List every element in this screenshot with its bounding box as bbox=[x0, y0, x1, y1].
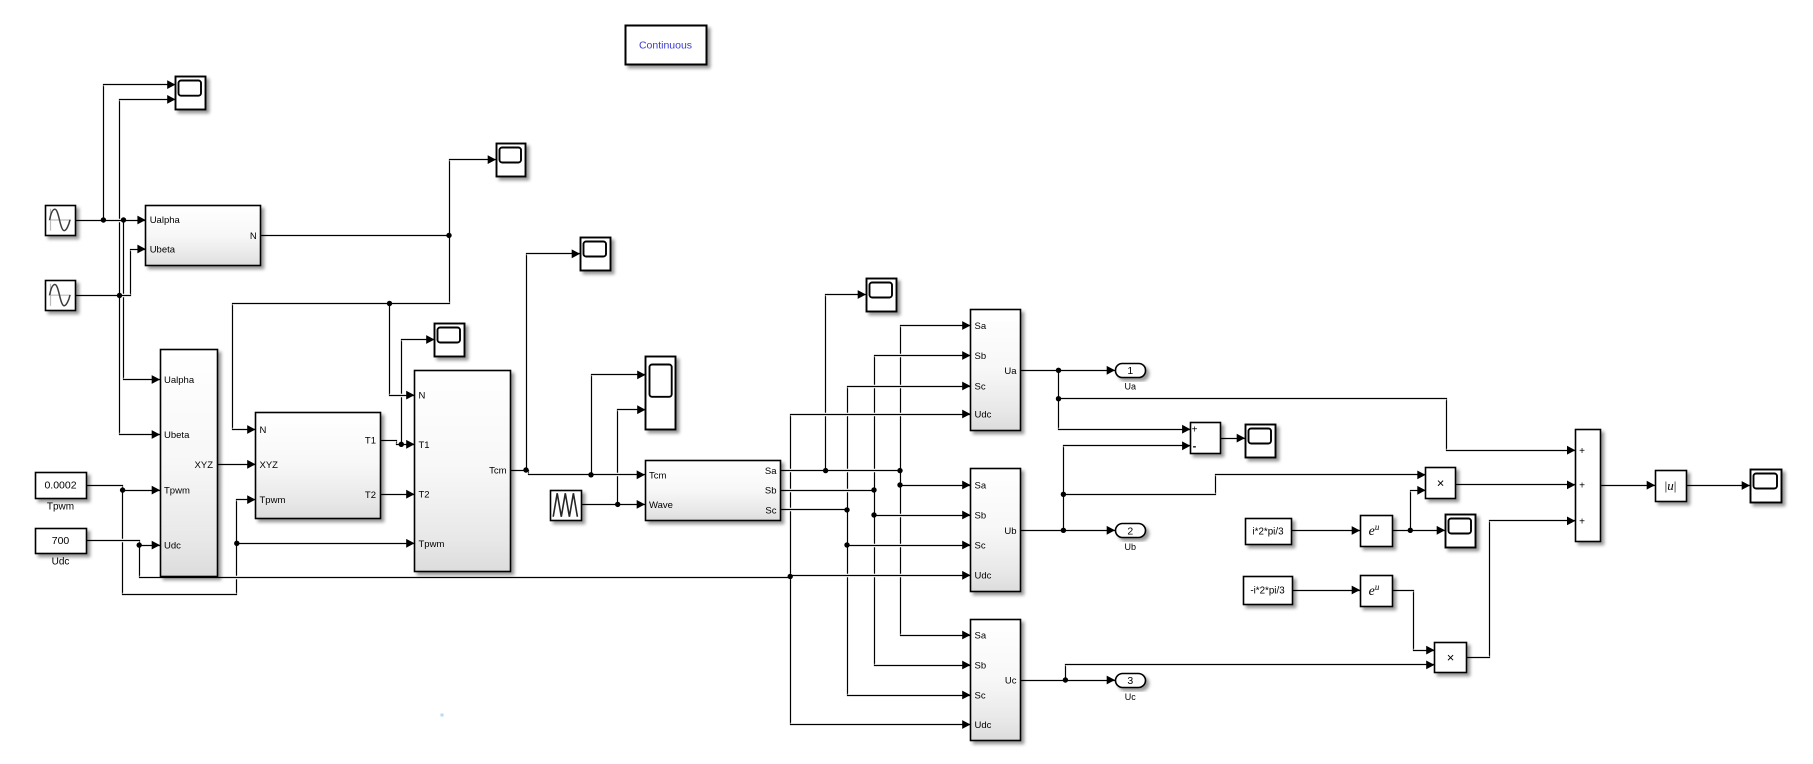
scope Scope8 (exp1) bbox=[1446, 515, 1476, 548]
svg-text:-i*2*pi/3: -i*2*pi/3 bbox=[1250, 586, 1285, 597]
svg-text:-: - bbox=[1193, 440, 1197, 452]
sum block (+/-) bbox=[1191, 423, 1221, 454]
wire Tpwm to Tcm-calc Tpwm bbox=[237, 543, 415, 545]
math function block Exp1 (e^u) bbox=[1361, 516, 1393, 547]
svg-text:Sa: Sa bbox=[975, 321, 987, 332]
svg-text:+: + bbox=[1579, 480, 1585, 491]
wire Sum to Scope7 bbox=[1221, 438, 1246, 440]
svg-text:|u|: |u| bbox=[1665, 478, 1677, 493]
wire Sine1 to N-calc Ualpha bbox=[76, 220, 146, 222]
svg-text:0.0002: 0.0002 bbox=[44, 480, 76, 492]
constant Tpwm (0.0002) bbox=[36, 473, 87, 513]
subsystem Tcm-calc bbox=[415, 371, 511, 572]
svg-text:N: N bbox=[250, 231, 257, 242]
scope Scope7 (Sum) bbox=[1246, 425, 1276, 458]
wire Product1 to Add in2 bbox=[1456, 484, 1576, 486]
svg-text:Continuous: Continuous bbox=[639, 40, 692, 52]
outport Out1 Ua (1) bbox=[1116, 364, 1146, 392]
wire Udc const to XYZ-calc Udc bbox=[87, 541, 161, 546]
constant phase +120 (i*2*pi/3) bbox=[1246, 519, 1292, 545]
wire exp2 to Product2 in1 bbox=[1393, 591, 1435, 651]
wire Ub branch to Product1 in1 bbox=[1064, 475, 1426, 495]
product block Product1 (x) bbox=[1426, 468, 1456, 499]
svg-text:Tpwm: Tpwm bbox=[419, 539, 445, 550]
svg-text:Ualpha: Ualpha bbox=[164, 375, 195, 386]
subsystem N-calc (sector) bbox=[146, 206, 261, 266]
scope Scope2 (N) bbox=[497, 144, 526, 177]
wire Triangle to PWM Wave bbox=[581, 504, 646, 506]
wire Udc trunk down to Uc block Udc bbox=[791, 578, 971, 725]
svg-text:Tcm: Tcm bbox=[489, 466, 507, 477]
constant phase -120 (-i*2*pi/3) bbox=[1244, 577, 1293, 605]
wire T2 to Tcm-calc T2 bbox=[381, 494, 415, 496]
svg-text:Uc: Uc bbox=[1125, 692, 1136, 702]
scope Scope5 (Tcm/Wave 2 inputs) bbox=[646, 357, 676, 430]
subsystem Ub bridge bbox=[971, 469, 1021, 592]
wire Ua branch to Add in1 bbox=[1059, 399, 1576, 451]
scope Scope4 (Tcm) bbox=[581, 238, 611, 271]
svg-text:Sa: Sa bbox=[975, 631, 987, 642]
svg-text:Udc: Udc bbox=[975, 410, 992, 421]
svg-text:Ubeta: Ubeta bbox=[150, 245, 176, 256]
svg-text:Sb: Sb bbox=[975, 661, 987, 672]
svg-text:Ua: Ua bbox=[1004, 366, 1017, 377]
scope Scope9 (|u|) bbox=[1751, 470, 1782, 503]
subsystem XYZ-calc bbox=[161, 350, 218, 577]
svg-text:Tcm: Tcm bbox=[649, 470, 667, 481]
svg-text:1: 1 bbox=[1127, 365, 1133, 377]
svg-text:Sa: Sa bbox=[975, 481, 987, 492]
svg-text:Udc: Udc bbox=[52, 557, 70, 568]
wire Ub to outport 2 bbox=[1021, 530, 1116, 532]
wire Sb source line bbox=[781, 490, 875, 492]
wire i2pi3 const to exp1 bbox=[1292, 530, 1361, 532]
wire branch to Scope4 bbox=[527, 254, 581, 471]
wire Uc to outport 3 bbox=[1021, 680, 1116, 682]
scope Scope1 (2 inputs) bbox=[176, 77, 206, 110]
wire branch to Scope3 bbox=[402, 340, 435, 445]
wire Sb branch to Ub bbox=[875, 515, 971, 517]
wire branch to XYZ-calc Ubeta bbox=[120, 296, 161, 435]
svg-text:Ua: Ua bbox=[1125, 382, 1137, 392]
svg-text:i*2*pi/3: i*2*pi/3 bbox=[1252, 527, 1284, 538]
wire branch to XYZ-calc Ualpha bbox=[124, 221, 161, 380]
wire Sa trunk bbox=[901, 326, 971, 636]
subsystem Ua bridge bbox=[971, 310, 1021, 431]
svg-text:T1: T1 bbox=[419, 440, 430, 451]
svg-text:Tpwm: Tpwm bbox=[260, 495, 286, 506]
wire exp1 branch to Product1 in2 bbox=[1411, 491, 1426, 531]
outport Out3 Uc (3) bbox=[1116, 674, 1146, 703]
svg-text:T1: T1 bbox=[365, 436, 376, 447]
wire Udc trunk up to Ua block Udc bbox=[791, 415, 971, 578]
abs block |u| bbox=[1656, 471, 1687, 502]
svg-text:T2: T2 bbox=[419, 490, 430, 501]
svg-text:+: + bbox=[1579, 446, 1585, 457]
wire Sc source line bbox=[781, 509, 848, 511]
constant Udc (700) bbox=[36, 529, 87, 568]
wire Sine2 to N-calc Ubeta bbox=[76, 250, 146, 296]
svg-text:+: + bbox=[1192, 425, 1198, 436]
svg-text:+: + bbox=[1579, 517, 1585, 528]
wire Ua to outport 1 bbox=[1021, 370, 1116, 372]
svg-text:Uc: Uc bbox=[1005, 676, 1017, 687]
scope Scope3 (T1) bbox=[435, 324, 465, 357]
svg-text:Ualpha: Ualpha bbox=[150, 215, 181, 226]
wire branch to Scope2 bbox=[450, 160, 497, 236]
wire branch to Tcm-calc N bbox=[390, 304, 415, 396]
svg-text:×: × bbox=[1447, 650, 1455, 665]
svg-text:XYZ: XYZ bbox=[260, 460, 279, 471]
wire Uc branch to Product2 in2 bbox=[1066, 665, 1435, 681]
outport Out2 Ub (2) bbox=[1116, 524, 1146, 553]
wire Abs to Scope9 bbox=[1687, 485, 1751, 487]
svg-text:×: × bbox=[1437, 476, 1445, 491]
svg-text:XYZ: XYZ bbox=[195, 460, 214, 471]
wire branch to Scope1 in2 bbox=[120, 100, 176, 296]
svg-text:2: 2 bbox=[1127, 525, 1133, 537]
subsystem Uc bridge bbox=[971, 620, 1021, 741]
svg-text:Wave: Wave bbox=[649, 500, 673, 511]
product block Product2 (x) bbox=[1435, 643, 1467, 673]
wire XYZ to T-calc XYZ bbox=[218, 464, 256, 466]
svg-text:Ub: Ub bbox=[1004, 526, 1016, 537]
svg-text:T2: T2 bbox=[365, 490, 376, 501]
svg-text:Tpwm: Tpwm bbox=[164, 486, 190, 497]
svg-text:Ubeta: Ubeta bbox=[164, 430, 190, 441]
sine wave source Sine1 bbox=[46, 206, 76, 236]
svg-text:Sc: Sc bbox=[975, 691, 986, 702]
wire Sc branch to Ub bbox=[848, 545, 971, 547]
math function block Exp2 (e^u) bbox=[1361, 576, 1393, 607]
stray artifact pixel bbox=[441, 714, 444, 717]
scope Scope6 (Sa) bbox=[867, 279, 897, 312]
svg-text:Sc: Sc bbox=[975, 541, 986, 552]
sine wave source Sine2 bbox=[46, 281, 76, 311]
wire Sc trunk bbox=[848, 387, 971, 696]
port arrowheads bbox=[137, 80, 1750, 729]
svg-text:Sb: Sb bbox=[975, 351, 987, 362]
wire Ub branch to Sum minus bbox=[1064, 446, 1191, 531]
wire Sa source line bbox=[781, 470, 901, 472]
add block (3x +) bbox=[1576, 430, 1601, 542]
wire Udc long line to Ub block Udc bbox=[140, 546, 971, 578]
wire branch to Scope5 in2 bbox=[618, 410, 646, 505]
wire Tcm to PWM Tcm bbox=[511, 471, 646, 475]
subsystem T1T2-calc bbox=[256, 413, 381, 519]
svg-text:Sc: Sc bbox=[765, 505, 776, 516]
svg-text:700: 700 bbox=[52, 535, 70, 547]
annotation Continuous (powergui) bbox=[626, 26, 707, 65]
svg-text:Sb: Sb bbox=[765, 486, 777, 497]
svg-text:Udc: Udc bbox=[975, 571, 992, 582]
wire T1 to Tcm-calc T1 bbox=[381, 441, 415, 445]
wire branch to Scope6 top bbox=[826, 295, 867, 471]
svg-text:Udc: Udc bbox=[975, 720, 992, 731]
svg-text:Sc: Sc bbox=[975, 382, 986, 393]
svg-text:Ub: Ub bbox=[1125, 542, 1137, 552]
svg-text:Udc: Udc bbox=[164, 541, 181, 552]
svg-text:Sa: Sa bbox=[765, 466, 777, 477]
wire exp1 to Scope8 bbox=[1393, 530, 1446, 532]
svg-text:Tpwm: Tpwm bbox=[47, 502, 74, 513]
wire N to T-calc N bbox=[233, 236, 450, 430]
wire branch to Scope5 in1 bbox=[592, 375, 646, 475]
wire minus i2pi3 const to exp2 bbox=[1293, 590, 1361, 592]
wire crossing casing pass bbox=[76, 85, 1751, 725]
subsystem PWM generator bbox=[646, 461, 781, 521]
wire Tpwm to T-calc Tpwm bbox=[123, 491, 256, 595]
wire Sb trunk bbox=[875, 356, 971, 666]
wire Tpwm const to XYZ-calc Tpwm bbox=[87, 486, 161, 491]
svg-text:3: 3 bbox=[1127, 675, 1133, 687]
svg-text:N: N bbox=[419, 391, 426, 402]
svg-text:Sb: Sb bbox=[975, 511, 987, 522]
wire Sa branch to Ub bbox=[901, 485, 971, 487]
svg-text:N: N bbox=[260, 425, 267, 436]
wire Ua branch to Sum plus bbox=[1059, 371, 1191, 430]
repeating sequence (triangle wave) bbox=[551, 491, 582, 521]
wire Product2 to Add in3 bbox=[1467, 521, 1576, 658]
wire Add to Abs bbox=[1601, 485, 1656, 487]
wire branch to Scope1 in1 bbox=[104, 85, 176, 221]
